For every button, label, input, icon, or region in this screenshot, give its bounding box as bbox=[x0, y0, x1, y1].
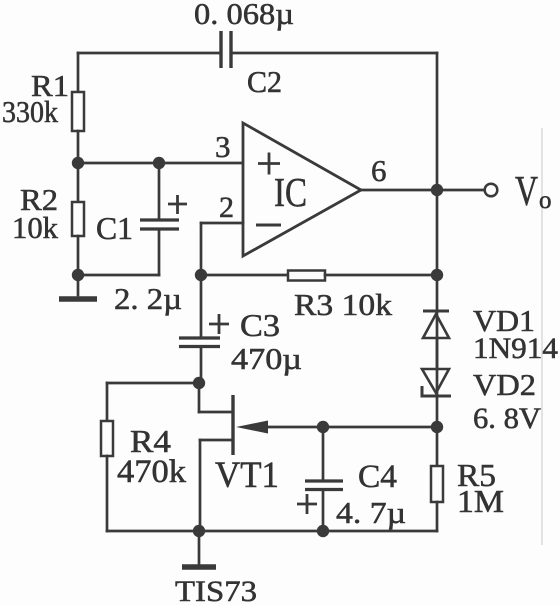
wire node A to op-amp pin 3 bbox=[78, 162, 243, 165]
resistor R1 bbox=[72, 92, 84, 131]
svg-text:2. 2µ: 2. 2µ bbox=[114, 281, 182, 316]
wire output from op-amp bbox=[361, 189, 484, 192]
wire left rail top (to R1) bbox=[77, 53, 80, 92]
plus sign of C4 bbox=[297, 494, 317, 514]
svg-text:6: 6 bbox=[371, 153, 387, 188]
node H junction (bottom rail source) bbox=[193, 525, 205, 537]
wire gate to right rail bbox=[262, 426, 437, 429]
wire top rail left of C2 bbox=[78, 52, 221, 55]
capacitor C3 lead bottom bbox=[200, 347, 203, 383]
capacitor C4 lead top bbox=[322, 427, 325, 480]
node B junction (C1 tap) bbox=[153, 157, 165, 169]
svg-text:o: o bbox=[539, 187, 552, 214]
output terminal circle bbox=[485, 184, 498, 197]
capacitor C4 lead bottom bbox=[322, 490, 325, 531]
svg-text:V: V bbox=[515, 169, 538, 215]
op-amp U1 (IC) bbox=[243, 123, 361, 256]
plus input marking bbox=[258, 153, 280, 175]
svg-text:330k: 330k bbox=[2, 94, 58, 129]
wire right rail mid bbox=[436, 190, 439, 275]
wire R2 bottom to ground node bbox=[77, 236, 80, 275]
wire R4 bottom lead bbox=[106, 456, 109, 531]
resistor R4 bbox=[101, 421, 113, 456]
resistor R3 bbox=[288, 271, 325, 281]
wire top rail right of C2 bbox=[231, 52, 437, 55]
svg-text:IC: IC bbox=[274, 169, 307, 215]
node E junction (gate / C4 top) bbox=[317, 421, 329, 433]
wire op-amp pin 2 horizontal bbox=[201, 222, 243, 225]
wire R4 top lead bbox=[106, 383, 109, 421]
transistor VT1 source lead bbox=[200, 440, 233, 531]
plus sign of C1 bbox=[168, 195, 187, 214]
svg-text:3: 3 bbox=[215, 129, 231, 164]
node G junction (bottom rail C4) bbox=[317, 525, 329, 537]
capacitor C1 bbox=[140, 220, 179, 229]
svg-text:VD2: VD2 bbox=[473, 367, 536, 402]
wire node A to R2 bbox=[77, 163, 80, 202]
node A junction bbox=[72, 157, 84, 169]
svg-text:VT1: VT1 bbox=[215, 455, 279, 496]
node out junction bbox=[431, 184, 443, 196]
wire node D to R4 top bbox=[107, 382, 199, 385]
wire R3 to right rail bbox=[325, 274, 437, 277]
ground symbol bottom bbox=[182, 531, 216, 567]
svg-text:10k: 10k bbox=[12, 210, 58, 245]
diode VD1 bbox=[423, 311, 449, 338]
node R3-right junction bbox=[431, 269, 443, 281]
svg-text:C2: C2 bbox=[247, 64, 282, 99]
wire R5 bottom to rail bbox=[436, 502, 439, 531]
node F junction (right rail gate row) bbox=[431, 421, 443, 433]
ground symbol left bbox=[59, 275, 97, 299]
wire R1 bottom to node A bbox=[77, 131, 80, 163]
capacitor C4 bbox=[305, 481, 343, 490]
svg-text:R3 10k: R3 10k bbox=[294, 287, 393, 322]
wire right rail top bbox=[436, 53, 439, 190]
capacitor C1 lead top bbox=[158, 163, 161, 219]
svg-text:0. 068µ: 0. 068µ bbox=[194, 0, 294, 31]
svg-text:470µ: 470µ bbox=[231, 341, 302, 376]
wire right rail to VD1 bbox=[436, 275, 439, 427]
resistor R2 bbox=[72, 202, 84, 236]
transistor VT1 gate arrow bbox=[236, 421, 268, 434]
wire gate row to R5 bbox=[436, 427, 439, 466]
svg-text:C4: C4 bbox=[358, 459, 397, 495]
zener diode VD2 bbox=[422, 369, 451, 396]
svg-text:C3: C3 bbox=[240, 307, 280, 343]
capacitor C2 bbox=[221, 31, 231, 68]
capacitor C3 bbox=[179, 338, 220, 347]
wire bottom rail bbox=[107, 530, 437, 533]
node C junction bbox=[195, 269, 207, 281]
node D junction (drain node) bbox=[193, 377, 205, 389]
minus input marking bbox=[256, 224, 281, 227]
resistor R5 bbox=[431, 466, 443, 502]
wire node C to R3 bbox=[201, 274, 288, 277]
capacitor C3 lead top bbox=[200, 275, 203, 337]
transistor VT1 channel bar bbox=[231, 395, 234, 455]
scan streak artifact bbox=[541, 128, 543, 545]
svg-text:4. 7µ: 4. 7µ bbox=[336, 495, 406, 530]
svg-text:2: 2 bbox=[219, 191, 234, 224]
svg-text:6. 8V: 6. 8V bbox=[473, 402, 541, 435]
svg-text:C1: C1 bbox=[96, 210, 133, 246]
svg-text:470k: 470k bbox=[117, 454, 187, 490]
wire VD1 to VD2 junction segment bbox=[436, 338, 439, 369]
wire pin 2 down to node C bbox=[200, 223, 203, 275]
capacitor C1 lead bottom bbox=[158, 230, 161, 275]
transistor VT1 drain lead bbox=[199, 383, 231, 412]
ground node junction bbox=[72, 269, 84, 281]
svg-text:1M: 1M bbox=[457, 483, 504, 519]
wire ground rail (R2 to C1 bottom) bbox=[78, 274, 159, 277]
svg-text:1N914: 1N914 bbox=[473, 332, 558, 365]
svg-text:TIS73: TIS73 bbox=[175, 575, 257, 605]
label Vo bbox=[515, 169, 552, 215]
plus sign of C3 bbox=[209, 314, 229, 334]
